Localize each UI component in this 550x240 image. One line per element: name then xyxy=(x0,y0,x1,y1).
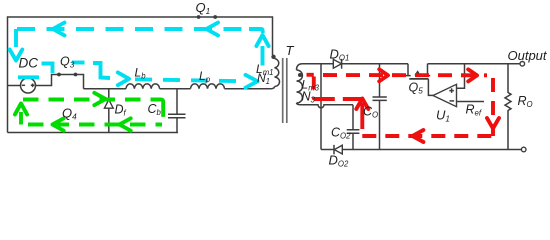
wire bottom rail of input stage xyxy=(8,132,179,134)
current loop 3 red right vertical xyxy=(491,78,495,136)
arrow red right 1 xyxy=(379,69,388,81)
wire outer box left/top/right of input stage xyxy=(8,17,273,133)
arrow cyan right 1 xyxy=(118,72,129,85)
resistor Ro xyxy=(505,64,511,150)
current loop 2 green top line xyxy=(23,98,161,102)
capacitor Cb branch xyxy=(176,89,178,114)
current loop 3 red mid vertical xyxy=(360,103,364,136)
wire bottom rail secondary xyxy=(321,149,334,151)
svg-text:T: T xyxy=(286,43,295,58)
wire return branch x=321 xyxy=(320,64,322,150)
wire op-amp plus input to rail xyxy=(457,64,465,89)
arrow green left 1 xyxy=(53,118,64,130)
current loop 1 cyan bracket above Q3 xyxy=(42,64,53,74)
wire N3 bottom with crossover hop xyxy=(301,105,353,108)
current loop 1 cyan top line xyxy=(17,27,243,31)
wire rail Lb to Lp xyxy=(160,88,191,90)
inductor Lp xyxy=(191,84,225,89)
current loop 3 red tail near N3 xyxy=(307,73,314,77)
wire main rail to Lb xyxy=(84,88,127,90)
current loop 3 red left vertical xyxy=(312,77,316,100)
arrow red up xyxy=(356,99,368,110)
arrow cyan left 2 xyxy=(207,23,219,36)
wire rail Lp to transformer primary xyxy=(225,87,275,89)
current loop 3 red inner horizontal xyxy=(314,97,363,101)
wire DO1 to Q5 xyxy=(342,63,408,65)
current loop 1 cyan over DC xyxy=(18,75,39,79)
arrow cyan up xyxy=(256,35,268,46)
source DC xyxy=(21,78,36,93)
wire secondary top to diode DO1 xyxy=(303,63,334,65)
current loop 1 cyan top right corner xyxy=(249,29,263,33)
current loop 2 green right vertical xyxy=(161,100,164,119)
capacitor CO branch xyxy=(379,64,381,97)
arrow green left 2 xyxy=(120,118,131,130)
arrow green up xyxy=(15,104,27,115)
transformer T core xyxy=(283,58,287,123)
capacitor CO2 branch xyxy=(352,105,354,130)
switch Q1 xyxy=(197,15,201,19)
transistor Q5 xyxy=(405,64,410,76)
arrow green right xyxy=(94,93,105,105)
arrow cyan down xyxy=(10,50,23,61)
current loop 2 green left vertical xyxy=(19,112,23,125)
diode Df xyxy=(104,98,114,100)
arrow red right 2 xyxy=(468,69,477,81)
inductor Lb xyxy=(126,84,160,89)
arrow red down xyxy=(487,118,499,129)
wire op-amp minus input to Ref xyxy=(457,101,485,103)
wire DC left to box edge xyxy=(8,85,21,87)
op-amp U1 xyxy=(433,84,457,106)
switch Q3 xyxy=(57,73,61,77)
node bottom output terminal xyxy=(521,147,526,152)
svg-text:Output: Output xyxy=(508,48,548,63)
arrow cyan right 2 xyxy=(246,75,258,88)
transformer secondary winding Lm3/N3 xyxy=(297,64,303,70)
svg-text:DC: DC xyxy=(19,56,39,71)
arrow cyan left 1 xyxy=(53,23,65,36)
current loop 3 red top line xyxy=(323,73,487,77)
wire DC to Q3 xyxy=(36,75,84,89)
wire rail Q5 to output xyxy=(428,63,521,65)
current loop 1 cyan along rail xyxy=(135,79,243,81)
arrow red left xyxy=(413,130,424,142)
transformer primary winding Lm1/N1 xyxy=(271,55,275,59)
current loop 1 cyan dash above Q3 xyxy=(72,61,85,65)
diode DO2 xyxy=(333,145,335,154)
current loop 1 cyan right vertical xyxy=(261,46,265,66)
current loop 1 cyan left vertical xyxy=(14,29,18,49)
current loop 3 red bottom line xyxy=(362,134,493,138)
diode Df branch wire xyxy=(108,89,110,100)
current loop 2 green bottom line xyxy=(28,123,162,127)
diode DO1 xyxy=(333,59,341,68)
current loop 1 cyan step down after Q3 xyxy=(93,63,110,78)
node output terminal xyxy=(520,62,525,67)
